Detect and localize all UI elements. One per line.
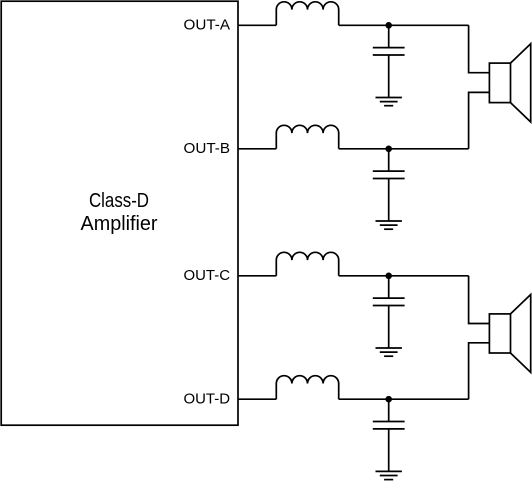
wire node D to speaker bus	[389, 398, 469, 400]
svg-text:OUT-C: OUT-C	[184, 268, 231, 284]
inductor LC	[276, 252, 338, 275]
speaker SP1 driver body	[489, 63, 510, 103]
wire inductor LB to node B	[339, 148, 389, 150]
capacitor CC	[373, 276, 405, 348]
ground GC	[376, 348, 402, 356]
wire node C to speaker bus	[389, 275, 469, 277]
wire OUT-B pin to inductor LB	[238, 148, 276, 150]
capacitor CB	[373, 149, 405, 221]
node D junction	[385, 396, 392, 403]
wire speaker SP1 minus terminal to bus	[469, 92, 490, 148]
capacitor CA	[373, 25, 405, 97]
wire inductor LA to node A	[339, 24, 389, 26]
inductor LB	[276, 125, 338, 149]
capacitor CD	[373, 399, 405, 471]
svg-text:OUT-D: OUT-D	[184, 391, 231, 407]
node A junction	[385, 22, 392, 29]
svg-text:OUT-B: OUT-B	[184, 141, 231, 157]
wire inductor LD to node D	[339, 398, 389, 400]
svg-text:Class-D: Class-D	[89, 189, 149, 212]
wire speaker SP2 minus terminal to bus	[469, 343, 490, 399]
wire bus to speaker SP2 plus terminal	[469, 276, 490, 324]
speaker SP2 horn cone	[511, 295, 531, 373]
speaker SP1 horn cone	[511, 44, 531, 122]
amplifier block U1	[1, 1, 238, 425]
wire node B to speaker bus	[389, 148, 469, 150]
inductor LA	[276, 2, 338, 26]
speaker SP2 driver body	[489, 314, 510, 353]
wire inductor LC to node C	[339, 275, 389, 277]
wire OUT-C pin to inductor LC	[238, 275, 276, 277]
wire node A to speaker bus	[389, 24, 469, 26]
node C junction	[385, 273, 392, 280]
inductor LD	[276, 376, 338, 400]
wire bus to speaker SP1 plus terminal	[469, 25, 490, 72]
node B junction	[385, 146, 392, 153]
svg-text:Amplifier: Amplifier	[81, 212, 158, 235]
svg-text:OUT-A: OUT-A	[184, 17, 231, 33]
ground GB	[376, 221, 402, 229]
ground GD	[376, 471, 402, 479]
wire OUT-A pin to inductor LA	[238, 24, 276, 26]
ground GA	[376, 98, 402, 106]
wire OUT-D pin to inductor LD	[238, 398, 276, 400]
